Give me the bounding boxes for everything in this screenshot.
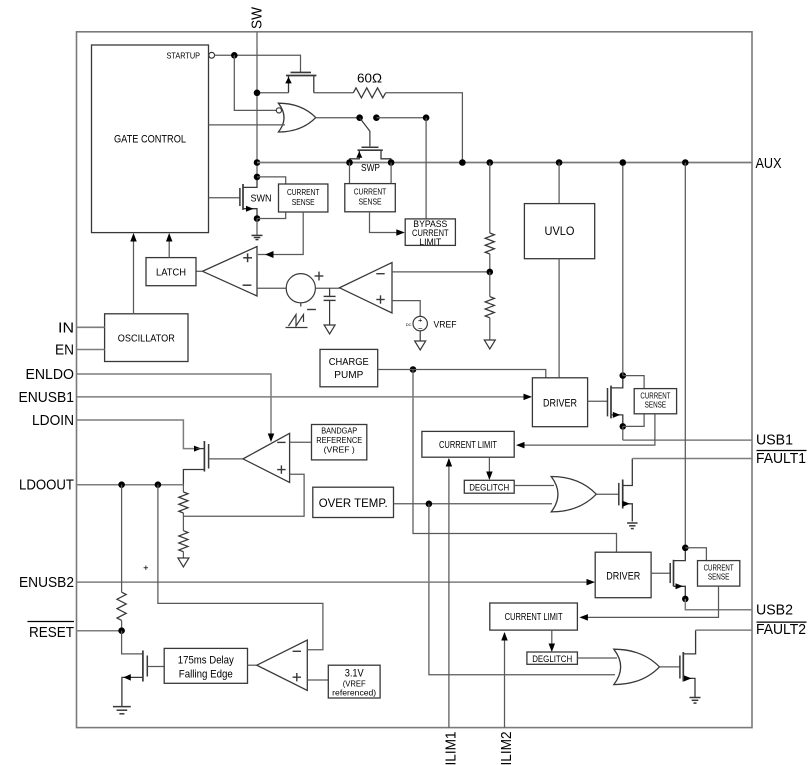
svg-text:CURRENT: CURRENT [354,187,387,197]
svg-text:EN: EN [55,342,74,359]
svg-text:AUX: AUX [756,155,782,172]
wire bypass FET right leg to resistor [314,92,354,94]
node SWN drain [254,174,261,181]
wire AUX rail [257,162,752,164]
wire charge pump output [378,369,413,371]
svg-text:Falling Edge: Falling Edge [179,668,233,680]
svg-text:CURRENT LIMIT: CURRENT LIMIT [505,611,563,623]
svg-text:SWN: SWN [251,194,272,205]
wire 60ohm to AUX rail [386,93,463,163]
gate OR1 (fault1) [551,477,596,512]
wire drain to current sense 1 [623,376,644,389]
wire NOR output [316,117,360,119]
svg-text:STARTUP: STARTUP [167,50,201,60]
ground (FAULT1 NMOS) [627,522,638,524]
wire comparator output to LATCH [196,270,203,272]
wire startup branch down to NOR input [234,55,276,110]
svg-text:LATCH: LATCH [156,267,186,279]
svg-text:SW: SW [249,6,266,29]
wire ILIM2 [504,633,506,728]
ground (SWN source) [256,219,258,236]
svg-text:BANDGAP: BANDGAP [321,427,357,436]
svg-text:USB1: USB1 [756,432,793,449]
wire EN [77,349,105,351]
block CURRENT SENSE (USB2) [698,561,740,587]
svg-text:CHARGE: CHARGE [329,356,369,368]
svg-text:ILIM1: ILIM1 [443,732,460,765]
svg-text:LDOIN: LDOIN [32,412,74,429]
wire current limit 1 to deglitch 1 [488,457,490,478]
wire OSCILLATOR to GATE CONTROL [133,235,135,314]
wire source to USB1 line [622,426,624,440]
wire over temp to fault OR gates [394,503,553,505]
svg-text:ENUSB2: ENUSB2 [19,574,74,591]
wire deglitch 2 to OR2 [577,657,617,659]
wire OR2 output to fault FET gate [660,666,680,668]
wire USB2 sense to current limit 2 [581,586,719,617]
wire reset comparator sense from LDOOUT [158,485,323,650]
startup inverter bubble on GATE CONTROL edge [209,52,215,58]
node charge pump output [410,366,417,373]
block OVER TEMP [313,487,394,517]
source VREF [413,316,427,330]
wire reset comparator ref [307,679,328,681]
switch blade to SWP gate [360,118,370,147]
node SWP source on rail [346,159,353,166]
svg-text:SENSE: SENSE [645,401,667,410]
wire current sense to bypass current limit [370,212,403,233]
svg-text:OVER TEMP.: OVER TEMP. [319,496,388,510]
wire USB1 line [623,439,752,441]
block DEGLITCH 2 [527,652,578,664]
node divider midpoint [487,269,494,276]
svg-text:ENUSB1: ENUSB1 [19,389,75,406]
block CHARGE PUMP [320,349,378,386]
svg-text:OSCILLATOR: OSCILLATOR [118,333,175,345]
sawtooth modulator source [286,274,315,303]
wire error comp inverting input to divider [392,271,490,273]
svg-text:DC: DC [406,322,412,327]
gate NOR U1 (startup gating) [278,103,315,132]
svg-text:ILIM2: ILIM2 [498,732,515,765]
wire SW pin vertical [256,32,258,177]
block CURRENT SENSE (USB1) [634,389,676,414]
svg-text:ENLDO: ENLDO [26,366,75,383]
wire switch contact to bypass-limit branch [376,117,426,119]
wire over temp down to FAULT2 OR [429,504,615,675]
stray plus mark [144,567,148,569]
svg-text:USB2: USB2 [756,601,793,618]
block DRIVER 2 [595,552,651,598]
transistor FAULT1 NMOS [618,483,620,506]
op-amp reset comparator U5 [248,664,257,666]
svg-text:RESET: RESET [29,624,74,641]
ground (RESET NMOS) [113,706,131,708]
wire OR1 output to fault FET gate [596,493,619,495]
wire branch down to BYPASS CURRENT LIMIT [425,118,427,219]
node LDOOUT reset pullup [118,481,125,488]
svg-text:175ms Delay: 175ms Delay [178,654,234,666]
node USB1 FET source [620,423,627,430]
svg-text:DEGLITCH: DEGLITCH [532,654,572,665]
node SWN source [254,215,261,222]
node AUX-USB2 tap [682,159,689,166]
resistor LDO feedback upper [182,485,184,492]
op-amp LDO error amp U4 [243,433,290,482]
op-amp PWM comparator U2 [203,247,258,297]
wire deglitch 1 to OR1 [514,485,554,487]
svg-text:GATE CONTROL: GATE CONTROL [114,134,186,146]
node LDOOUT supervisor tap [155,481,162,488]
wire 175ms block to gate [147,666,164,668]
block CURRENT LIMIT 2 [490,603,578,630]
resistor divider lower [489,272,491,297]
svg-text:3.1V: 3.1V [345,667,365,679]
block BYPASS CURRENT LIMIT [405,219,455,246]
node startup branch [231,52,238,59]
node divider top on AUX rail [487,159,494,166]
wire modulator to error comparator [315,287,339,289]
transistor SWP [362,146,379,148]
wire LDO gate to amp output [209,458,243,460]
wire comparator inverting input to modulator [257,287,286,289]
transistor LDO pass PMOS [194,446,202,452]
resistor RESET pull-up [121,485,123,593]
node USB2 FET source [682,596,689,603]
transistor SWN [209,197,240,199]
wire AUX to USB2 FET drain [684,163,686,548]
svg-text:FAULT2: FAULT2 [756,621,806,638]
transistor bypass PMOS (top) [291,71,312,73]
node bypass-limit branch [423,114,430,121]
wire current limit 2 to deglitch 2 [551,630,553,650]
svg-text:(VREF ): (VREF ) [324,446,355,455]
node on SW line [254,90,261,97]
block 175ms delay [164,648,247,683]
svg-text:CURRENT: CURRENT [287,187,320,197]
wire IN [77,326,105,328]
wire bypass FET left leg to SW line [257,92,289,94]
node over temp branch [426,501,433,508]
wire FAULT2 to pin [696,629,752,631]
node 60ohm-AUX junction [459,159,466,166]
node NOR output [356,114,363,121]
wire UVLO to DRIVER1 [558,259,560,378]
transistor FAULT2 NMOS [679,656,681,679]
svg-text:DRIVER: DRIVER [606,571,640,583]
resistor LDO feedback lower [179,531,188,552]
wire ILIM1 [448,459,450,728]
svg-text:(VREF: (VREF [343,679,366,688]
op-amp error comparator U3 [340,263,393,314]
wire ENUSB1 to DRIVER1 [77,396,530,398]
svg-text:PUMP: PUMP [334,369,363,381]
block UVLO [524,204,594,259]
node USB1 FET drain [620,372,627,379]
block CURRENT SENSE (SWN) [279,184,328,212]
wire FAULT1 to pin [632,458,752,460]
sawtooth waveform glyph [289,315,304,327]
svg-text:LDOOUT: LDOOUT [19,477,74,494]
svg-text:referenced): referenced) [332,688,376,697]
svg-text:SENSE: SENSE [708,572,730,581]
block CURRENT LIMIT 1 [422,431,514,457]
wire AUX to USB1 FET drain [622,163,624,376]
node SWP drain on rail [388,159,395,166]
svg-text:LIMIT: LIMIT [419,237,441,247]
wire SWN source to current sense [257,212,286,219]
node USB2 FET drain [682,545,689,552]
svg-text:VREF: VREF [434,320,457,331]
wire RESET [77,630,122,632]
svg-text:DEGLITCH: DEGLITCH [469,483,509,494]
ground (FAULT2 NMOS) [690,697,701,699]
wire source to current sense 2 [685,599,752,610]
wire rail to current sense (right) [390,163,392,184]
capacitor compensation [329,288,331,296]
outer IC boundary box [77,32,753,728]
transistor RESET open-drain NMOS [122,631,143,654]
svg-text:CURRENT: CURRENT [704,563,734,572]
svg-text:60Ω: 60Ω [357,72,382,86]
wire startup to bypass FET gate [215,55,301,72]
node AUX-USB1 tap [620,159,627,166]
gate OR2 (fault2) [614,649,660,684]
svg-text:CURRENT LIMIT: CURRENT LIMIT [439,439,497,451]
wire current sense to PWM comparator + [258,212,303,255]
block CURRENT SENSE (SWP) [345,184,396,212]
wire GATE CONTROL to NOR lower input [209,124,286,126]
svg-text:FAULT1: FAULT1 [756,450,806,467]
wire ENUSB2 to DRIVER2 [77,581,593,583]
wire LDOIN to LDO pass FET [77,420,197,449]
transistor USB1 switch NMOS [588,400,608,402]
wire source to current sense 1 [623,414,644,427]
wire charge pump to DRIVER2 [413,370,617,553]
node UVLO tap on AUX rail [556,159,563,166]
wire LATCH to GATE CONTROL [168,235,170,258]
svg-text:SENSE: SENSE [292,197,315,207]
wire LDOOUT [77,484,184,486]
block BANDGAP REFERENCE [312,425,367,460]
wire LDO feedback [183,474,304,516]
transistor USB2 switch NMOS [651,572,670,574]
wire ENLDO to LDO amp [77,374,272,434]
block OSCILLATOR [105,314,188,362]
resistor divider upper [489,163,491,234]
svg-text:IN: IN [58,319,74,336]
svg-text:SWP: SWP [361,163,380,174]
svg-text:UVLO: UVLO [545,226,575,238]
wire SWN drain to current sense [257,177,286,184]
svg-text:REFERENCE: REFERENCE [316,436,362,445]
resistor 60ohm [353,88,385,98]
wire charge pump to DRIVER1 [413,370,546,378]
wire drain to current sense 2 [685,548,706,561]
block GATE CONTROL [92,45,209,233]
node RESET [118,627,125,634]
block LATCH [146,258,196,286]
wire LDO amp inverting to bandgap [290,441,312,443]
block DRIVER 1 [532,378,587,427]
block 3.1V reference [328,665,380,698]
wire rail to current sense (left) [349,163,351,184]
block DEGLITCH 1 [464,480,514,493]
node SW at AUX rail corner [254,159,261,166]
node switch contact [373,114,380,121]
svg-text:CURRENT: CURRENT [640,392,670,401]
wire USB1 sense to current limit 1 [518,414,655,445]
svg-text:DRIVER: DRIVER [543,397,577,409]
svg-text:SENSE: SENSE [359,197,382,207]
wire error comp non-inverting input to VREF [392,301,420,317]
wire AUX to UVLO [558,163,560,204]
